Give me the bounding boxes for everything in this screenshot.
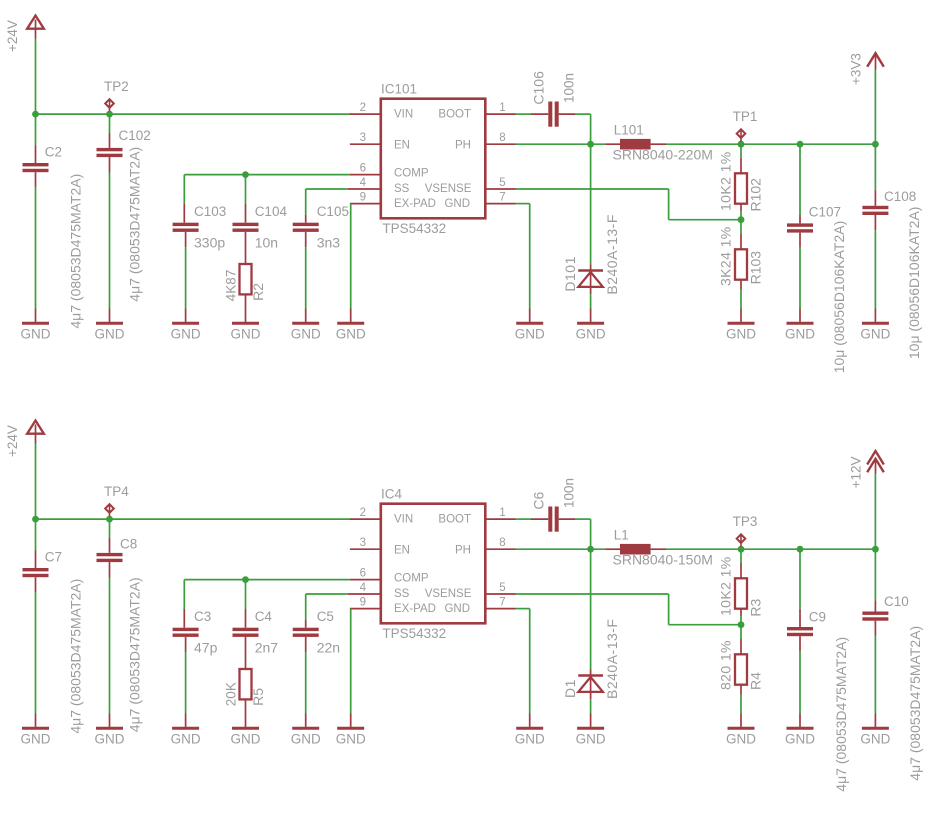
- resistor R4 820 1%: [740, 625, 742, 639]
- node output junction at output cap 1: [797, 141, 804, 148]
- svg-text:100n: 100n: [562, 478, 577, 508]
- svg-text:3K24 1%: 3K24 1%: [718, 226, 734, 286]
- svg-text:C104: C104: [255, 204, 288, 219]
- svg-text:10K2 1%: 10K2 1%: [718, 556, 734, 616]
- svg-text:B240A-13-F: B240A-13-F: [604, 214, 620, 294]
- svg-text:C3: C3: [194, 609, 211, 624]
- node output junction at feedback divider: [738, 546, 745, 553]
- svg-text:TP4: TP4: [104, 484, 129, 499]
- svg-text:TP1: TP1: [733, 109, 758, 124]
- ground under R2: [232, 322, 259, 325]
- diode D101 B240A-13-F: [590, 144, 592, 264]
- ground under C3: [172, 727, 199, 730]
- svg-text:B240A-13-F: B240A-13-F: [604, 619, 620, 699]
- svg-text:GND: GND: [444, 198, 470, 210]
- pin 5 VSENSE of IC4: [485, 593, 515, 595]
- svg-text:4μ7 (08053D475MAT2A): 4μ7 (08053D475MAT2A): [67, 579, 83, 734]
- svg-text:4μ7 (08053D475MAT2A): 4μ7 (08053D475MAT2A): [833, 637, 849, 792]
- capacitor C106 100n: [516, 113, 532, 115]
- wire output net horizontal: [666, 548, 875, 550]
- svg-text:SRN8040-150M: SRN8040-150M: [613, 552, 713, 568]
- svg-text:3n3: 3n3: [317, 234, 341, 250]
- testpoint TP1: [740, 129, 742, 141]
- svg-text:10n: 10n: [255, 234, 278, 250]
- node output junction at output cap 2: [872, 546, 879, 553]
- wire IC GND pin to ground: [516, 203, 530, 205]
- wire COMP net horizontal: [184, 579, 350, 581]
- wire R103 to ground: [740, 309, 742, 322]
- wire VSENSE feedback: [516, 593, 669, 595]
- wire SS net: [306, 593, 348, 595]
- svg-text:8: 8: [499, 132, 505, 144]
- wire main input horizontal: [36, 518, 351, 520]
- svg-text:GND: GND: [95, 326, 125, 341]
- svg-text:C108: C108: [884, 189, 916, 204]
- wire BOOT to PH node: [575, 113, 590, 115]
- ground under C105: [292, 322, 319, 325]
- svg-text:+12V: +12V: [849, 456, 864, 488]
- ground under R103: [728, 322, 755, 325]
- svg-text:VIN: VIN: [394, 109, 413, 121]
- pin 7 GND of IC4: [485, 608, 515, 610]
- svg-text:C8: C8: [120, 537, 137, 552]
- wire D1 to ground: [590, 699, 592, 713]
- pin 2 VIN of IC101: [350, 113, 381, 115]
- svg-text:R102: R102: [747, 178, 763, 212]
- svg-text:2: 2: [360, 507, 366, 519]
- pin 9 EX-PAD of IC4: [350, 608, 381, 610]
- wire COMP net horizontal: [184, 174, 350, 176]
- svg-text:VSENSE: VSENSE: [425, 588, 472, 600]
- node input junction at C2 column: [32, 111, 39, 118]
- svg-text:330p: 330p: [194, 234, 225, 250]
- ground under EX-PAD: [337, 727, 364, 730]
- svg-text:20K: 20K: [224, 682, 239, 706]
- capacitor C102: [109, 114, 111, 133]
- svg-text:6: 6: [360, 163, 366, 175]
- svg-text:C4: C4: [255, 609, 273, 624]
- wire +24V vertical: [35, 39, 37, 115]
- svg-text:EX-PAD: EX-PAD: [394, 603, 436, 615]
- wire EX-PAD to ground: [350, 204, 352, 309]
- pin 4 SS of IC4: [348, 593, 381, 595]
- wire EX-PAD to ground: [350, 609, 352, 714]
- pin 1 BOOT of IC4: [485, 518, 515, 520]
- power symbol +24V (top): [27, 16, 44, 29]
- svg-text:2: 2: [360, 102, 366, 114]
- pin 6 COMP of IC101: [350, 174, 381, 176]
- wire C102 to ground: [109, 173, 111, 309]
- svg-text:+24V: +24V: [5, 20, 20, 52]
- svg-text:GND: GND: [231, 731, 261, 746]
- wire C7 to ground: [35, 592, 37, 713]
- svg-text:4μ7 (08053D475MAT2A): 4μ7 (08053D475MAT2A): [127, 577, 143, 732]
- ground under C8: [96, 727, 123, 730]
- svg-text:EN: EN: [394, 545, 410, 557]
- testpoint TP3: [740, 534, 742, 546]
- svg-text:GND: GND: [291, 731, 321, 746]
- svg-text:COMP: COMP: [394, 168, 429, 180]
- wire C105 to ground: [305, 247, 307, 308]
- inductor L1 SRN8040-150M: [605, 548, 620, 550]
- node COMP junction: [242, 576, 249, 583]
- wire VSENSE feedback: [516, 188, 669, 190]
- capacitor C107: [799, 144, 801, 215]
- svg-text:7: 7: [499, 192, 505, 204]
- ground under IC GND pin: [516, 727, 543, 730]
- svg-text:GND: GND: [444, 603, 470, 615]
- capacitor C9: [799, 549, 801, 609]
- svg-text:SS: SS: [394, 588, 410, 600]
- svg-text:GND: GND: [515, 326, 545, 341]
- ground under EX-PAD: [337, 322, 364, 325]
- wire SS net: [306, 188, 348, 190]
- svg-text:TPS54332: TPS54332: [382, 626, 446, 641]
- svg-text:6: 6: [360, 568, 366, 580]
- svg-text:C5: C5: [317, 609, 334, 624]
- capacitor C4: [245, 580, 247, 609]
- diode D1 B240A-13-F: [590, 549, 592, 669]
- svg-text:C107: C107: [809, 205, 841, 220]
- testpoint TP4: [109, 504, 111, 516]
- svg-text:10μ (08056D106KAT2A): 10μ (08056D106KAT2A): [906, 207, 922, 360]
- svg-text:EN: EN: [394, 140, 410, 152]
- wire R4 to ground: [740, 714, 742, 727]
- capacitor C104: [245, 175, 247, 204]
- node PH junction: [587, 141, 594, 148]
- wire BOOT to PH node: [575, 518, 590, 520]
- ground under R5: [232, 727, 259, 730]
- svg-text:D1: D1: [562, 679, 578, 698]
- svg-text:IC101: IC101: [381, 82, 417, 97]
- pin 6 COMP of IC4: [350, 579, 381, 581]
- svg-text:TPS54332: TPS54332: [382, 221, 446, 236]
- wire D101 to ground: [590, 294, 592, 308]
- resistor R102 10K2 1%: [740, 144, 742, 158]
- power symbol +12V: [874, 474, 876, 549]
- ground under IC GND pin: [516, 322, 543, 325]
- wire C9 to ground: [799, 651, 801, 713]
- node feedback junction: [738, 216, 745, 223]
- svg-text:820 1%: 820 1%: [718, 640, 734, 690]
- svg-text:GND: GND: [336, 326, 366, 341]
- svg-text:L101: L101: [614, 123, 644, 138]
- ground under C7: [22, 727, 49, 730]
- wire PH net: [516, 143, 606, 145]
- pin 5 VSENSE of IC101: [485, 188, 515, 190]
- node output junction at output cap 1: [797, 546, 804, 553]
- svg-text:C6: C6: [531, 491, 547, 509]
- node output junction at output cap 2: [872, 141, 879, 148]
- svg-text:R103: R103: [747, 251, 763, 285]
- svg-text:100n: 100n: [562, 73, 577, 103]
- svg-text:C10: C10: [884, 594, 909, 609]
- ground under C9: [787, 727, 814, 730]
- wire feedback node: [740, 211, 742, 220]
- pin 3 EN of IC4: [350, 548, 381, 550]
- ground under C5: [292, 727, 319, 730]
- wire C5 to ground: [305, 652, 307, 713]
- capacitor C10: [874, 549, 876, 600]
- svg-text:GND: GND: [291, 326, 321, 341]
- svg-text:4: 4: [360, 582, 367, 594]
- svg-text:+24V: +24V: [5, 425, 20, 457]
- svg-text:GND: GND: [860, 326, 890, 341]
- capacitor C6 100n: [516, 518, 532, 520]
- svg-text:1: 1: [499, 102, 505, 114]
- wire C3 to ground: [185, 652, 187, 713]
- testpoint TP2: [109, 99, 111, 111]
- wire IC GND pin to ground: [516, 608, 530, 610]
- wire output net horizontal: [666, 143, 875, 145]
- resistor R5: [245, 637, 247, 669]
- svg-text:GND: GND: [576, 326, 606, 341]
- pin 9 EX-PAD of IC101: [350, 203, 381, 205]
- svg-text:C106: C106: [531, 71, 547, 105]
- svg-text:7: 7: [499, 597, 505, 609]
- svg-text:GND: GND: [785, 731, 815, 746]
- svg-text:R2: R2: [250, 283, 266, 301]
- wire PH net: [516, 548, 606, 550]
- capacitor C8: [109, 519, 111, 538]
- wire main input horizontal: [36, 113, 351, 115]
- ground under C2: [22, 322, 49, 325]
- svg-text:2n7: 2n7: [255, 639, 279, 655]
- svg-text:SRN8040-220M: SRN8040-220M: [613, 147, 713, 163]
- op-amp regulator IC IC101 TPS54332: [381, 99, 486, 219]
- svg-text:GND: GND: [726, 731, 756, 746]
- svg-text:C2: C2: [45, 145, 62, 160]
- svg-text:TP2: TP2: [104, 79, 129, 94]
- svg-text:4μ7 (08053D475MAT2A): 4μ7 (08053D475MAT2A): [907, 626, 923, 781]
- node COMP junction: [242, 171, 249, 178]
- svg-text:4μ7 (08053D475MAT2A): 4μ7 (08053D475MAT2A): [67, 174, 83, 329]
- svg-text:4K87: 4K87: [224, 270, 239, 302]
- inductor L101 SRN8040-220M: [605, 143, 620, 145]
- capacitor C105: [305, 215, 307, 223]
- svg-text:L1: L1: [614, 528, 629, 543]
- node input junction at TP column: [106, 516, 113, 523]
- svg-text:VSENSE: VSENSE: [425, 183, 472, 195]
- capacitor C2: [35, 114, 37, 145]
- wire C103 to ground: [185, 247, 187, 308]
- wire +24V vertical: [35, 444, 37, 520]
- svg-text:GND: GND: [21, 326, 51, 341]
- svg-text:EX-PAD: EX-PAD: [394, 198, 436, 210]
- svg-text:3: 3: [360, 537, 366, 549]
- capacitor C103: [183, 175, 185, 204]
- svg-text:9: 9: [360, 192, 366, 204]
- svg-text:C103: C103: [194, 204, 226, 219]
- pin 2 VIN of IC4: [350, 518, 381, 520]
- wire feedback node: [740, 616, 742, 625]
- node PH junction: [587, 546, 594, 553]
- capacitor C3: [183, 580, 185, 609]
- svg-text:GND: GND: [171, 731, 201, 746]
- svg-text:GND: GND: [95, 731, 125, 746]
- ground under C108: [862, 322, 889, 325]
- svg-text:PH: PH: [455, 140, 471, 152]
- svg-text:GND: GND: [785, 326, 815, 341]
- resistor R3 10K2 1%: [740, 549, 742, 563]
- op-amp regulator IC IC4 TPS54332: [381, 504, 486, 624]
- capacitor C108: [874, 144, 876, 190]
- svg-text:4: 4: [360, 177, 367, 189]
- pin 8 PH of IC101: [485, 143, 515, 145]
- svg-text:D101: D101: [562, 256, 578, 291]
- wire C2 to ground: [35, 187, 37, 308]
- svg-text:8: 8: [499, 537, 505, 549]
- svg-text:VIN: VIN: [394, 514, 413, 526]
- svg-text:9: 9: [360, 597, 366, 609]
- resistor R2: [245, 232, 247, 264]
- svg-text:GND: GND: [515, 731, 545, 746]
- ground under D1: [577, 727, 604, 730]
- node input junction at TP column: [106, 111, 113, 118]
- pin 7 GND of IC101: [485, 203, 515, 205]
- power symbol +3V3: [874, 70, 876, 145]
- wire C10 to ground: [874, 636, 876, 714]
- svg-text:4μ7 (08053D475MAT2A): 4μ7 (08053D475MAT2A): [127, 147, 143, 302]
- svg-text:R4: R4: [747, 672, 763, 690]
- svg-text:TP3: TP3: [733, 514, 758, 529]
- svg-text:GND: GND: [860, 731, 890, 746]
- ground under C107: [787, 322, 814, 325]
- svg-text:C102: C102: [119, 128, 151, 143]
- power symbol +24V (bottom): [27, 421, 44, 434]
- svg-text:5: 5: [499, 582, 505, 594]
- svg-text:IC4: IC4: [381, 487, 403, 502]
- svg-text:C9: C9: [809, 610, 826, 625]
- svg-text:R3: R3: [747, 598, 763, 616]
- capacitor C5: [305, 620, 307, 628]
- svg-text:1: 1: [499, 507, 505, 519]
- ground under C10: [862, 727, 889, 730]
- svg-text:BOOT: BOOT: [438, 109, 471, 121]
- node output junction at feedback divider: [738, 141, 745, 148]
- wire C8 to ground: [109, 578, 111, 714]
- svg-text:SS: SS: [394, 183, 410, 195]
- node feedback junction: [738, 621, 745, 628]
- ground under R4: [728, 727, 755, 730]
- svg-text:GND: GND: [21, 731, 51, 746]
- svg-text:GND: GND: [336, 731, 366, 746]
- svg-text:22n: 22n: [317, 639, 340, 655]
- svg-text:47p: 47p: [194, 639, 218, 655]
- svg-text:R5: R5: [250, 688, 266, 706]
- resistor R103 3K24 1%: [740, 220, 742, 234]
- svg-text:COMP: COMP: [394, 573, 429, 585]
- capacitor C7: [35, 519, 37, 550]
- svg-text:GND: GND: [576, 731, 606, 746]
- svg-text:5: 5: [499, 177, 505, 189]
- svg-text:10K2 1%: 10K2 1%: [718, 151, 734, 211]
- pin 4 SS of IC101: [348, 188, 381, 190]
- svg-text:BOOT: BOOT: [438, 514, 471, 526]
- wire C107 to ground: [799, 248, 801, 309]
- svg-text:+3V3: +3V3: [849, 53, 864, 85]
- node input junction at C2 column: [32, 516, 39, 523]
- svg-text:GND: GND: [171, 326, 201, 341]
- svg-text:GND: GND: [231, 326, 261, 341]
- ground under D101: [577, 322, 604, 325]
- ground under C103: [172, 322, 199, 325]
- svg-text:PH: PH: [455, 545, 471, 557]
- ground under C102: [96, 322, 123, 325]
- pin 3 EN of IC101: [350, 143, 381, 145]
- pin 8 PH of IC4: [485, 548, 515, 550]
- pin 1 BOOT of IC101: [485, 113, 515, 115]
- svg-text:C7: C7: [45, 550, 62, 565]
- wire C108 to ground: [874, 230, 876, 308]
- svg-text:3: 3: [360, 132, 366, 144]
- svg-text:C105: C105: [317, 204, 349, 219]
- svg-text:GND: GND: [726, 326, 756, 341]
- svg-text:10μ (08056D106KAT2A): 10μ (08056D106KAT2A): [831, 221, 847, 374]
